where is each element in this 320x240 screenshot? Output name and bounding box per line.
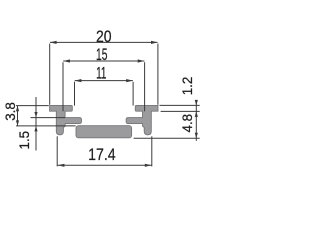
dim 11 line [75, 80, 133, 82]
arrow right vline down at 106 [195, 100, 198, 106]
svg-text:15: 15 [96, 45, 107, 64]
profile body right piece (mirror) [126, 105, 158, 134]
arrow 20 right [151, 41, 158, 44]
dim 20 line [50, 41, 158, 43]
svg-text:20: 20 [96, 27, 112, 46]
arrow 15 left [63, 59, 70, 62]
dimension texts [3, 27, 196, 164]
arrowheads [16, 41, 198, 167]
ext 15 right [144, 62, 146, 111]
arrow 3.8 down at 125.9 [16, 120, 19, 126]
ext flange-top left [31, 117, 66, 119]
ext 17.4 left [56, 136, 58, 166]
left dim vline [35, 97, 37, 151]
arrow 3.8 up at 105.6 [16, 106, 19, 112]
arrow left vline down at 117.5 [34, 112, 37, 118]
arrow 20 left [50, 41, 57, 44]
svg-text:3.8: 3.8 [3, 102, 19, 121]
arrow 11 right [126, 79, 133, 82]
dimension graphics [16, 42, 200, 166]
arrow 15 right [138, 59, 145, 62]
profile body left piece (wing+wall+flange+foot) [50, 105, 82, 134]
bottom slab (separate plate) [76, 126, 132, 138]
dim 17.4 line [58, 164, 152, 166]
arrow right vline down at 138.6 [195, 133, 198, 139]
ext slab-bottom right [134, 137, 200, 139]
arrow 17.4 left [58, 164, 65, 167]
ext wing-bottom right [161, 110, 200, 112]
right dim vline [195, 101, 197, 141]
ext 15 left [62, 62, 64, 111]
dim 3.8 vline [17, 106, 19, 126]
ext slab-top left [16, 125, 76, 127]
ext 20 left [49, 44, 51, 105]
ext 11 right [132, 82, 134, 106]
ext wing-top left [16, 105, 49, 107]
svg-text:4.8: 4.8 [180, 114, 196, 133]
ext wing-top right [160, 104, 200, 106]
arrow left vline up at 125.9 [34, 126, 37, 131]
arrow 11 left [75, 79, 82, 82]
arrow 17.4 right [145, 164, 152, 167]
svg-text:1.2: 1.2 [180, 77, 196, 96]
arrow right vline up at 112.9 [195, 111, 198, 117]
svg-text:11: 11 [96, 64, 106, 83]
svg-text:17.4: 17.4 [88, 145, 116, 164]
dim 15 line [63, 60, 144, 62]
ext 17.4 right [151, 136, 153, 166]
svg-text:1.5: 1.5 [17, 131, 33, 150]
ext 20 right [157, 44, 159, 105]
ext 11 left [74, 82, 76, 106]
